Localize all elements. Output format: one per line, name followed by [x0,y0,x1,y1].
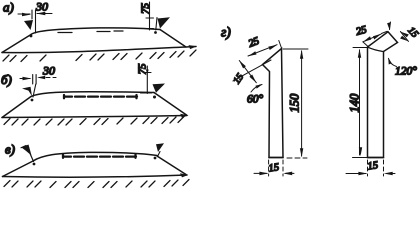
svg-text:в): в) [5,142,15,157]
svg-text:25: 25 [355,25,368,38]
svg-text:30: 30 [35,0,48,14]
svg-text:15: 15 [231,72,246,87]
svg-text:б): б) [1,72,12,87]
svg-text:25: 25 [247,36,261,50]
svg-text:150: 150 [288,93,302,113]
svg-text:140: 140 [348,93,362,113]
svg-text:120°: 120° [395,66,417,78]
svg-text:15: 15 [367,160,379,172]
svg-text:а): а) [3,0,14,15]
svg-text:30: 30 [42,64,55,78]
svg-text:60°: 60° [247,94,264,106]
svg-text:г): г) [221,25,231,40]
svg-text:15: 15 [268,162,280,174]
svg-text:15: 15 [405,25,420,40]
